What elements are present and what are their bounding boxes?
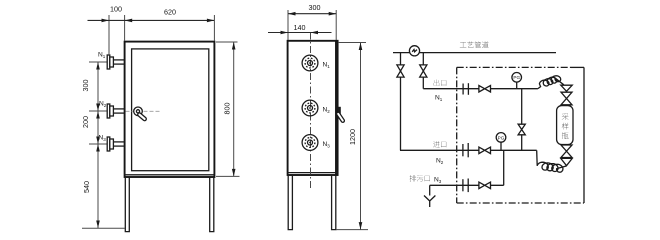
side left leg xyxy=(288,175,292,230)
drop line to drain xyxy=(503,150,505,185)
side right leg xyxy=(332,175,336,230)
label process pipe xyxy=(460,41,489,48)
cabinet base inner line xyxy=(125,174,215,176)
dim 620 (top) xyxy=(164,8,214,42)
valve V8 (drain) xyxy=(479,182,491,189)
cabinet boundary (dash-dot box) xyxy=(457,67,584,203)
tap line down to inlet xyxy=(400,53,402,151)
drain drop and Y strainer xyxy=(424,185,435,207)
svg-text:PG: PG xyxy=(498,135,505,140)
dim 300 (side top) xyxy=(288,3,336,40)
svg-text:PG: PG xyxy=(513,75,520,80)
right leg xyxy=(210,177,214,231)
upper pigtail coil xyxy=(538,76,564,89)
pressure gauge PG2 xyxy=(496,133,506,151)
outlet line xyxy=(423,88,538,90)
side door handle xyxy=(336,107,345,123)
dim 140 (side) xyxy=(268,23,332,34)
bottle label (vertical) xyxy=(562,113,569,120)
cabinet outer body xyxy=(125,42,215,177)
svg-text:800: 800 xyxy=(223,103,232,115)
valve V4 (inlet) xyxy=(479,147,491,154)
nozzle flange circle N2 xyxy=(302,100,330,116)
nozzle flange circle N1 xyxy=(302,55,330,71)
drain line xyxy=(430,184,504,186)
sampling bottle xyxy=(557,106,573,145)
label inlet xyxy=(433,141,446,147)
label outlet xyxy=(434,80,446,86)
pressure gauge PG1 xyxy=(512,73,522,89)
bypass line with needle valve xyxy=(521,89,523,151)
svg-text:300: 300 xyxy=(81,80,90,92)
cone below bottle xyxy=(561,158,572,165)
left leg xyxy=(125,177,129,231)
svg-text:140: 140 xyxy=(294,23,306,32)
door inner panel xyxy=(132,49,209,171)
nozzle N3 (bottom, y=144) xyxy=(89,135,125,152)
side base inner line xyxy=(288,172,338,174)
svg-text:300: 300 xyxy=(309,3,321,12)
lower pigtail coil xyxy=(537,150,567,172)
svg-text:540: 540 xyxy=(82,181,91,193)
valve V3 (outlet) xyxy=(479,86,491,93)
nozzle N2 (middle, y=111) xyxy=(89,101,125,119)
valve V1 (vertical) xyxy=(397,65,404,77)
return line down to outlet xyxy=(422,53,424,89)
inline instrument circle on process line xyxy=(409,46,419,56)
svg-text:1200: 1200 xyxy=(348,129,357,145)
dim 200 (left, N2-N3) xyxy=(81,111,100,144)
nozzle N1 (top, y=62) xyxy=(89,52,125,70)
side panel right thick edge xyxy=(335,41,337,175)
flange pair F1 xyxy=(463,83,468,95)
label drain xyxy=(410,175,430,181)
dim 100 (top) xyxy=(88,5,215,56)
svg-text:100: 100 xyxy=(110,5,122,14)
nozzle flange circle N3 xyxy=(302,135,330,151)
side panel body xyxy=(288,41,338,175)
valve V7 (bottle bottom) xyxy=(561,145,572,158)
process pipe line xyxy=(393,52,556,54)
valve V2 (vertical) xyxy=(420,65,427,77)
valve V5 (bypass vertical) xyxy=(518,124,525,135)
door handle xyxy=(126,107,161,121)
svg-text:620: 620 xyxy=(164,8,176,17)
svg-text:200: 200 xyxy=(81,116,90,128)
valve V6 (bottle top) xyxy=(561,92,572,105)
centerline xyxy=(310,33,312,191)
dim 800 (right of front view) xyxy=(216,42,240,176)
dim 1200 (side right) xyxy=(336,43,368,230)
dim 540 (left, N3-ground) xyxy=(82,144,125,228)
inlet line xyxy=(400,149,537,151)
dim 300 (left, N1-N2) xyxy=(81,62,100,111)
funnel above sampling bottle xyxy=(561,85,572,91)
flange pair F3 xyxy=(463,179,468,193)
flange pair F2 xyxy=(463,143,468,157)
